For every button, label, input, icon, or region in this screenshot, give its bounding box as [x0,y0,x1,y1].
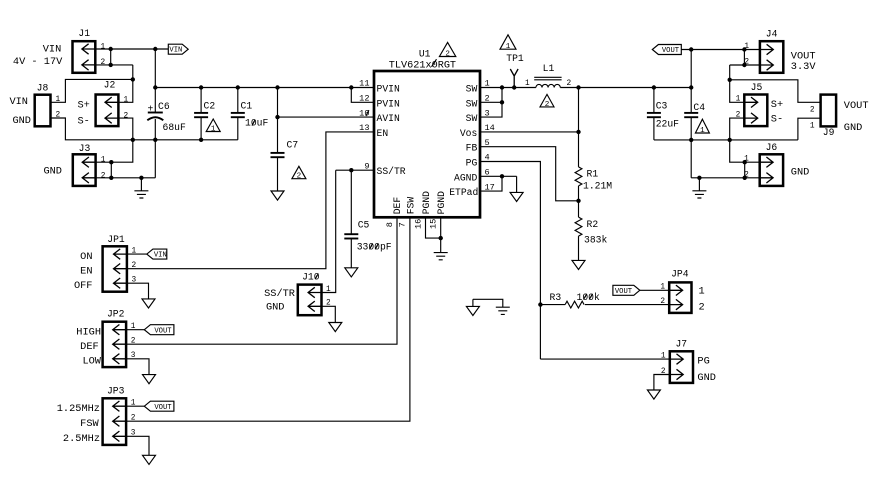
svg-text:J5: J5 [751,82,763,93]
svg-text:S-: S- [78,115,90,127]
junction output rail at C3 [652,85,656,89]
svg-text:GND: GND [12,115,31,127]
wire J3.2 ground row [96,177,156,179]
svg-text:SW: SW [466,98,478,109]
connector J1 [73,28,106,73]
svg-text:J3: J3 [79,143,91,154]
junction TP1 [512,85,516,89]
svg-text:DEF: DEF [392,197,403,215]
junction C6 at gnd rail [153,138,157,142]
svg-text:JP2: JP2 [107,308,125,319]
svg-text:GND: GND [844,122,863,134]
svg-text:FSW: FSW [80,418,99,430]
wire J4 tie vertical [743,50,745,66]
net flag VIN (top) [168,44,188,55]
wire PGND pin 16 [426,217,441,238]
test point TP1 [506,53,524,87]
svg-text:1.25MHz: 1.25MHz [57,403,100,415]
svg-text:R1: R1 [587,169,599,180]
svg-text:VOUT: VOUT [154,327,172,335]
net tie ground (triangle) [466,299,479,315]
junction J3.1 [109,160,113,164]
junction SW2 [500,100,504,104]
wire FSW pin 7 to JP3.2 [126,217,410,421]
svg-text:1: 1 [101,43,106,51]
junction J5.2 path at bottom rail [728,138,732,142]
wire DEF pin 8 to JP2.2 [126,217,397,344]
svg-text:1: 1 [810,122,815,130]
svg-text:R3: R3 [550,292,562,303]
svg-text:VIN: VIN [154,252,167,260]
svg-text:VIN: VIN [169,47,182,55]
wire Vos pin 14 [480,131,579,133]
label TLV621x0RGT [389,59,456,71]
svg-text:JP1: JP1 [107,234,125,245]
svg-text:GND: GND [791,167,810,179]
op-amp U1 TLV621x0RGT body [374,71,480,217]
svg-text:J2: J2 [104,80,116,91]
warning triangle 2 (L1) [540,94,554,109]
svg-text:C1: C1 [241,101,253,112]
svg-text:2: 2 [744,171,749,179]
warning triangle 1 (C4) [695,119,709,135]
wire feedback branch down [578,88,580,167]
junction Vos [576,130,580,134]
svg-text:J7: J7 [675,339,687,350]
junction gnd row at earth [697,176,701,180]
svg-text:EN: EN [80,266,92,278]
svg-text:100k: 100k [577,292,600,303]
wire JP1.1 to flag [127,253,147,255]
wire PG pin 4 down [480,162,540,360]
svg-text:J9: J9 [823,127,835,138]
junction SW1 [500,85,504,89]
svg-text:JP3: JP3 [107,385,125,396]
junction rail at C6 [153,85,157,89]
wire earth stub [698,178,700,191]
svg-text:Vos: Vos [460,128,478,139]
svg-text:PG: PG [697,356,709,368]
wire EN pin 13 to JP1.2 [127,132,374,269]
wire C4 bottom row to J6.2 [691,177,760,179]
svg-text:68uF: 68uF [163,122,186,133]
wire R1 to R2 [578,186,580,217]
warning triangle 2 (U1) [439,42,455,58]
svg-text:J1: J1 [78,28,90,39]
svg-text:2: 2 [101,172,106,180]
connector J8 [35,82,61,126]
svg-text:VOUT: VOUT [154,404,172,412]
svg-text:SW: SW [466,84,478,95]
ground (earth) PGND [434,253,448,260]
wire PVIN pin 12 tie [351,88,374,103]
junction J4 tie top [742,47,746,51]
svg-text:1: 1 [506,43,511,51]
capacitor C1 [231,88,269,140]
svg-text:2: 2 [132,262,137,270]
wire ETPad pin 17 [480,176,502,191]
svg-text:SW: SW [466,113,478,124]
connector J10 [298,272,331,316]
svg-text:HIGH: HIGH [76,327,101,339]
junction output rail at R1 branch [576,85,580,89]
wire AGND pin 6 [480,175,517,177]
wire R3 to JP4.2 [585,304,669,306]
junction J2.2 path crosses gnd rail [131,138,135,142]
connector JP3 [103,385,136,445]
svg-text:22uF: 22uF [656,119,679,130]
junction J3.2 [109,176,113,180]
wire J1.2 [95,64,133,66]
svg-text:SS/TR: SS/TR [377,166,406,177]
net flag VOUT (JP4) [613,285,640,296]
svg-text:383k: 383k [584,235,607,246]
svg-text:C4: C4 [693,102,705,113]
svg-text:OFF: OFF [74,280,93,292]
svg-text:4V - 17V: 4V - 17V [13,56,63,68]
junction FB [576,199,580,203]
svg-text:PGND: PGND [436,191,447,214]
svg-text:1: 1 [56,96,61,104]
wire net tie [473,299,503,307]
svg-text:ETPad: ETPad [449,187,478,198]
wire rail up to J9.1 [798,118,821,140]
connector JP1 [103,234,137,292]
capacitor C7 [271,88,299,192]
junction J4 tie bottom [742,63,746,67]
connector J9 [810,95,836,139]
junction rail at C7 [275,85,279,89]
junction rail at C1 [236,85,240,89]
net flag VIN (JP1) [147,249,167,260]
svg-text:2: 2 [545,101,550,109]
wire SS/TR down to J10.1 [322,170,336,292]
svg-text:10uF: 10uF [245,117,268,128]
resistor R3 [550,292,600,308]
svg-text:1: 1 [660,284,665,292]
wire J1.1 to VIN flag [95,48,168,50]
svg-text:1: 1 [661,352,666,360]
svg-text:+: + [147,103,153,114]
svg-text:1: 1 [211,126,216,134]
svg-text:SS/TR: SS/TR [264,288,295,300]
connector JP2 [103,308,136,367]
svg-text:2: 2 [131,338,136,346]
svg-text:J4: J4 [766,28,778,39]
svg-text:3300pF: 3300pF [357,242,392,253]
svg-text:2: 2 [699,302,705,314]
svg-text:JP4: JP4 [671,269,689,280]
svg-text:1: 1 [736,96,741,104]
capacitor C6 (polarized) [147,88,186,178]
wire J5.2 down to J6.1 [730,118,760,162]
ground (triangle) JP2 [143,375,156,384]
junction SS/TR at C5 [349,168,353,172]
capacitor C2 [194,88,215,140]
wire VOUT riser [690,50,692,88]
junction J6 tie bottom [743,176,747,180]
ground (triangle) J7 [647,390,660,399]
svg-text:J10: J10 [302,272,320,283]
svg-text:2: 2 [101,59,106,67]
junction C7/AVIN [275,115,279,119]
svg-text:1: 1 [700,127,705,135]
svg-text:FSW: FSW [405,197,416,215]
net flag VOUT (JP2) [144,325,174,336]
ground (triangle) below C7 [271,191,284,200]
connector J4 [744,28,783,72]
svg-text:3.3V: 3.3V [791,61,817,73]
svg-text:2: 2 [131,415,136,423]
connector J3 [73,143,106,186]
svg-text:ON: ON [80,251,92,263]
wire AVIN pin 10 [278,116,375,118]
svg-text:1: 1 [699,286,705,298]
junction bottom rail at C4 [689,138,693,142]
junction node J1.2/J8.1/J2.1 [131,77,135,81]
warning triangle 1 (C2) [206,119,220,134]
wire SW pin 2 [480,101,502,103]
svg-text:PVIN: PVIN [377,84,400,95]
wire J8.2 to gnd rail [51,118,238,140]
svg-text:2: 2 [297,173,302,181]
wire R2 to ground [578,236,580,260]
svg-text:C5: C5 [358,220,370,231]
warning triangle 1 (TP1) [500,35,516,51]
wire JP3.1 to flag [126,405,144,407]
ground (triangle) R2 [572,260,585,269]
ground (triangle) JP3 [143,455,156,464]
wire JP3.3 to ground [126,436,149,455]
capacitor C5 [344,170,391,268]
junction rail at PVIN tie [349,85,353,89]
label 1.25MHz [57,403,100,415]
wire bottom rail [654,139,798,141]
connector JP4 [660,269,691,313]
wire SW pin 1 to L1 [480,87,536,89]
capacitor C3 [647,88,679,140]
junction J5.1 branch [728,78,732,82]
svg-text:PG: PG [466,158,478,169]
wire VOUT row to J4.1 [681,49,760,51]
svg-text:TP1: TP1 [506,53,524,64]
svg-text:VIN: VIN [43,44,62,56]
inductor L1 [525,63,572,88]
resistor R2 [575,217,607,246]
svg-text:C3: C3 [656,100,668,111]
svg-text:U1: U1 [419,49,431,60]
wire J3.1-J3.2 tie [110,162,112,178]
svg-text:16: 16 [413,219,423,229]
svg-text:1.21M: 1.21M [583,180,612,191]
wire vertical J1.1-J1.2 tie [110,49,112,65]
svg-text:EN: EN [377,128,389,139]
wire VIN rail (top) [155,87,374,89]
svg-text:1: 1 [101,157,106,165]
svg-text:2: 2 [445,50,450,58]
svg-text:2: 2 [744,58,749,66]
ground (triangle) J10 [329,323,342,332]
wire J8.1 to node [51,79,133,102]
svg-text:L1: L1 [543,63,555,74]
svg-text:15: 15 [429,219,439,229]
svg-text:VOUT: VOUT [662,47,680,55]
svg-text:2: 2 [567,80,572,88]
junction C2 at gnd rail [199,138,203,142]
ground (earth) net tie [496,307,510,314]
svg-text:PGND: PGND [421,191,432,214]
wire J1.2 down to J2.1 [118,65,132,102]
junction AGND/ETPad [500,174,504,178]
wire to J9.2 [730,80,821,103]
junction VOUT riser [689,47,693,51]
wire JP1.3 to ground [127,283,149,299]
ground (triangle) AGND [510,192,523,201]
svg-text:PVIN: PVIN [377,98,400,109]
svg-text:S+: S+ [78,100,90,112]
svg-text:AVIN: AVIN [377,113,400,124]
wire flag to JP4.1 [640,289,669,291]
wire SS/TR pin 9 [336,169,374,171]
wire VIN riser to rail [154,49,156,88]
wire J4.2 to J5.1 [730,65,745,102]
wire PGND pin 15 [440,217,442,238]
ground (triangle) below C5 [345,268,358,277]
wire SW pin 3 [480,88,502,118]
capacitor C4 [684,88,705,178]
svg-text:VOUT: VOUT [844,100,869,112]
svg-text:7: 7 [398,222,408,227]
svg-text:2: 2 [810,107,815,115]
wire JP2.3 to ground [126,359,149,375]
connector J7 [661,339,693,383]
junction PG at R3 [538,302,542,306]
svg-text:1: 1 [124,97,129,105]
svg-text:C7: C7 [287,140,299,151]
junction ground row [139,176,143,180]
connector J6 [744,142,783,186]
svg-text:2: 2 [124,112,129,120]
svg-text:1: 1 [744,156,749,164]
junction output rail at C4 [689,85,693,89]
svg-text:VOUT: VOUT [615,288,633,296]
wire J4.2 row [730,64,760,66]
resistor R1 [575,167,612,191]
junction PGND [439,236,443,240]
svg-text:1: 1 [744,43,749,51]
svg-text:1: 1 [525,80,530,88]
svg-text:TLV621x0RGT: TLV621x0RGT [389,60,456,71]
svg-text:2.5MHz: 2.5MHz [63,433,100,445]
junction rail at C2 [199,85,203,89]
wire PG row to J7.1 [540,358,669,360]
svg-text:R2: R2 [587,219,599,230]
ground (earth) below J3 [134,191,148,198]
svg-text:J8: J8 [37,82,49,93]
junction J1.2 [109,63,113,67]
ground (triangle) JP1 [142,299,155,308]
svg-text:11: 11 [359,79,369,89]
svg-text:DEF: DEF [80,341,99,353]
svg-text:LOW: LOW [82,356,101,368]
wire PGND to ground [440,238,442,253]
svg-text:GND: GND [266,302,285,314]
junction VIN flag row [153,47,157,51]
junction J6 tie top [743,160,747,164]
net flag VOUT (top) [652,45,681,56]
wire AGND to ground [516,176,518,192]
svg-text:S-: S- [771,114,783,126]
svg-text:S+: S+ [771,99,783,111]
svg-text:GND: GND [43,166,62,178]
svg-text:VIN: VIN [9,96,28,108]
svg-text:FB: FB [466,143,478,154]
connector J5 [736,82,768,126]
svg-text:C2: C2 [204,101,216,112]
wire J6 tie vertical [744,162,746,178]
wire JP2.1 to flag [126,329,144,331]
connector J2 [96,80,129,127]
junction J1.1 [109,47,113,51]
wire J2.2 down to J3.1 [96,118,133,162]
wire ground stub [140,178,142,191]
ground (earth) below C4 [692,191,706,198]
svg-text:8: 8 [385,222,395,227]
svg-text:GND: GND [697,372,716,384]
wire L1 to output rail [560,87,691,89]
wire J10.2 to ground [322,306,336,322]
wire R3 row [540,304,565,306]
wire FB pin 5 [480,147,579,201]
svg-text:AGND: AGND [454,172,477,183]
svg-text:J6: J6 [766,142,778,153]
svg-text:1: 1 [326,286,331,294]
svg-text:2: 2 [660,298,665,306]
svg-text:C6: C6 [158,101,170,112]
warning triangle 2 (C7) [292,166,306,180]
wire J7.2 to ground [654,375,670,391]
net flag VOUT (JP3) [144,401,174,412]
